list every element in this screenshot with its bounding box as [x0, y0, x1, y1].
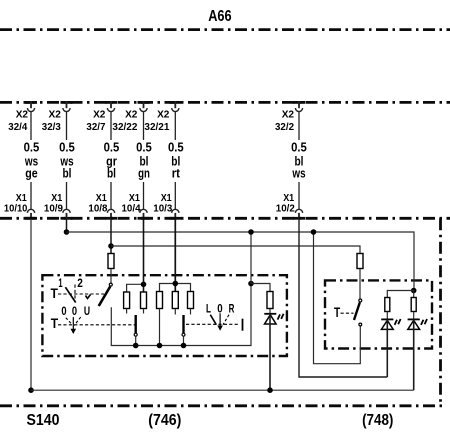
resistor R1 lead [126, 309, 128, 314]
inner box 748 (dash-dot) [325, 280, 432, 348]
resistor R2 lead [143, 309, 145, 314]
svg-text:32/4: 32/4 [8, 121, 27, 133]
svg-text:32/7: 32/7 [86, 121, 105, 133]
resistor R1 [124, 292, 130, 309]
washer pointer dashed right [74, 317, 81, 325]
wire LED to ground bus [269, 314, 271, 390]
svg-text:0: 0 [61, 306, 66, 318]
connector X2 32/7 [105, 101, 117, 111]
svg-text:L: L [206, 303, 211, 315]
LED diode (748 no.2) [408, 319, 427, 329]
inner box 746 (dash-dot) [42, 275, 287, 356]
ground bus wire [31, 389, 414, 391]
wire 10/2 down [299, 219, 387, 377]
svg-text:0: 0 [72, 306, 77, 318]
LED diode (748 no.1) [381, 319, 400, 329]
wire 0.5 ws ge [30, 112, 32, 210]
junction dot [141, 282, 147, 288]
tip contact mark [86, 295, 91, 299]
resistor R3 lead to bus [159, 309, 161, 346]
LED diode (746) [264, 314, 283, 324]
connector X1 10/4 [138, 209, 150, 219]
svg-text:(746): (746) [148, 412, 181, 429]
washer arrow [72, 317, 74, 330]
resistor R5 [188, 292, 194, 309]
svg-text:X2: X2 [282, 108, 294, 120]
wire 0.5 ws bl [66, 112, 68, 210]
S140 box bottom edge (dash-dot) [0, 404, 442, 407]
svg-text:gn: gn [138, 166, 150, 181]
svg-text:32/21: 32/21 [144, 121, 169, 133]
A66 box bottom edge / X2 connector line (dash-dot) [0, 101, 450, 104]
svg-text:32/2: 32/2 [275, 121, 294, 133]
wire LED1 to 10/2 wire [386, 319, 388, 377]
resistor R4 [172, 292, 178, 309]
svg-text:A66: A66 [208, 8, 231, 25]
turn pointer solid left [210, 315, 216, 325]
748 switch arm [354, 303, 360, 321]
resistor R5 lead [190, 309, 192, 315]
svg-text:10/9: 10/9 [44, 202, 63, 214]
wire resistor to LED 2 [413, 312, 415, 320]
wire resistor to 748 switch [359, 269, 361, 299]
junction dot [411, 288, 417, 294]
position pointer (solid) from 1 [65, 287, 75, 302]
wire 0.5 gr bl [110, 112, 112, 210]
dashed linkage line (wipe) [58, 293, 104, 295]
junction dot [64, 229, 70, 235]
wire 746 bus up to supply bus [250, 232, 252, 284]
svg-text:T: T [334, 305, 341, 320]
wire 0.5 bl gn [143, 112, 145, 210]
svg-text:ws: ws [292, 166, 306, 181]
svg-text:X2: X2 [157, 108, 169, 120]
svg-text:(748): (748) [362, 412, 393, 429]
dashed linkage line (turn) [186, 323, 240, 325]
connector X2 32/4 [25, 101, 37, 111]
resistor R3 [157, 292, 163, 309]
svg-text:X2: X2 [16, 108, 28, 120]
svg-text:10/4: 10/4 [122, 202, 141, 214]
connector X1 10/2 [293, 209, 305, 219]
resistor ladder right top wire [160, 284, 191, 292]
junction dot [108, 243, 114, 249]
connector X2 32/3 [61, 101, 73, 111]
S140 box top edge (dash-dot) [0, 217, 450, 220]
junction dot [133, 343, 139, 349]
resistor (746 LED) [267, 292, 273, 309]
svg-text:ge: ge [25, 166, 37, 181]
junction dot [311, 229, 317, 235]
wire 0.5 bl ws [298, 112, 300, 210]
svg-text:U: U [84, 306, 90, 318]
junction dot [157, 343, 163, 349]
svg-text:1: 1 [58, 278, 63, 290]
resistor R2 [141, 292, 147, 309]
svg-text:32/22: 32/22 [112, 121, 137, 133]
resistor ladder left top wire [127, 284, 144, 292]
svg-text:bl: bl [63, 166, 72, 181]
resistor (748 LED 1) [385, 298, 390, 312]
selector contact left (arm) [134, 315, 136, 333]
S140 box right edge (dash-dot) [439, 218, 442, 405]
resistor R4 lead [174, 309, 176, 315]
wire to 748 switch resistor [111, 246, 360, 254]
selector contact left circle [134, 333, 137, 336]
turn pointer dashed right [223, 315, 229, 325]
connector X1 10/9 [61, 209, 73, 219]
svg-text:2: 2 [77, 278, 83, 290]
wire 10/10 down to ground bus [30, 219, 32, 390]
linkage end bar [242, 319, 244, 331]
wire to LED resistors 748 [387, 291, 413, 298]
dashed linkage line (748) [341, 312, 354, 314]
junction dot [248, 229, 254, 235]
wire resistor to LED 1 [386, 312, 388, 320]
washer pointer dashed left [66, 318, 73, 325]
selector contact right stub [183, 336, 185, 345]
svg-text:R: R [229, 303, 235, 315]
junction dot [181, 343, 187, 349]
junction dot [173, 281, 179, 287]
main switch arm [99, 287, 111, 307]
svg-text:S140: S140 [27, 412, 60, 429]
junction dot [28, 387, 34, 393]
svg-text:10/2: 10/2 [276, 202, 295, 214]
wire 10/3 down [174, 219, 176, 292]
wire 10/8 down [110, 219, 112, 254]
svg-text:32/3: 32/3 [42, 121, 61, 133]
wire 10/4 down [143, 219, 145, 292]
connector X1 10/10 [25, 209, 37, 219]
junction dot [267, 387, 273, 393]
svg-text:X2: X2 [125, 108, 137, 120]
A66 box top edge (dash-dot) [0, 28, 450, 31]
main switch throw contact wire [111, 284, 251, 346]
selector contact right (arm) [182, 315, 184, 333]
748 switch upper contact [359, 299, 362, 302]
748 switch lower contact [359, 323, 362, 326]
svg-text:bl: bl [107, 166, 116, 181]
connector X2 32/22 [138, 101, 150, 111]
dashed linkage line (washer) [58, 324, 135, 326]
wire bus down resistor 748 LED 2 [413, 291, 415, 298]
connector X2 32/2 [293, 101, 305, 111]
svg-text:X2: X2 [93, 108, 105, 120]
wire resistor to LED [269, 309, 271, 314]
selector contact left stub [135, 336, 137, 345]
turn arrow [219, 313, 221, 327]
connector X1 10/3 [169, 209, 181, 219]
svg-text:T: T [51, 286, 59, 301]
svg-text:10/3: 10/3 [153, 202, 172, 214]
main switch pivot contact [109, 283, 112, 286]
position pointer (dashed) below 2 [74, 285, 76, 302]
svg-text:T: T [51, 316, 59, 331]
svg-text:10/10: 10/10 [4, 202, 28, 214]
wire 0.5 bl rt [174, 112, 176, 210]
junction dot [248, 281, 254, 287]
supply bus wire y232 [67, 232, 415, 291]
resistor (748 switch feed) [357, 254, 363, 269]
connector X2 32/21 [169, 101, 181, 111]
wire 746 LED branch [251, 284, 270, 292]
connector X1 10/8 [105, 209, 117, 219]
wire 10/9 down [66, 219, 68, 232]
wire resistor to switch pivot [110, 269, 112, 283]
resistor (748 LED 2) [411, 298, 416, 312]
resistor (10/8 feed) [108, 254, 114, 269]
svg-text:X2: X2 [49, 108, 61, 120]
selector contact right circle [182, 333, 185, 336]
wire supply to 748 switch [314, 232, 361, 364]
svg-text:rt: rt [172, 166, 181, 181]
svg-text:10/8: 10/8 [88, 202, 107, 214]
wire LED2 to ground bus [413, 319, 415, 390]
